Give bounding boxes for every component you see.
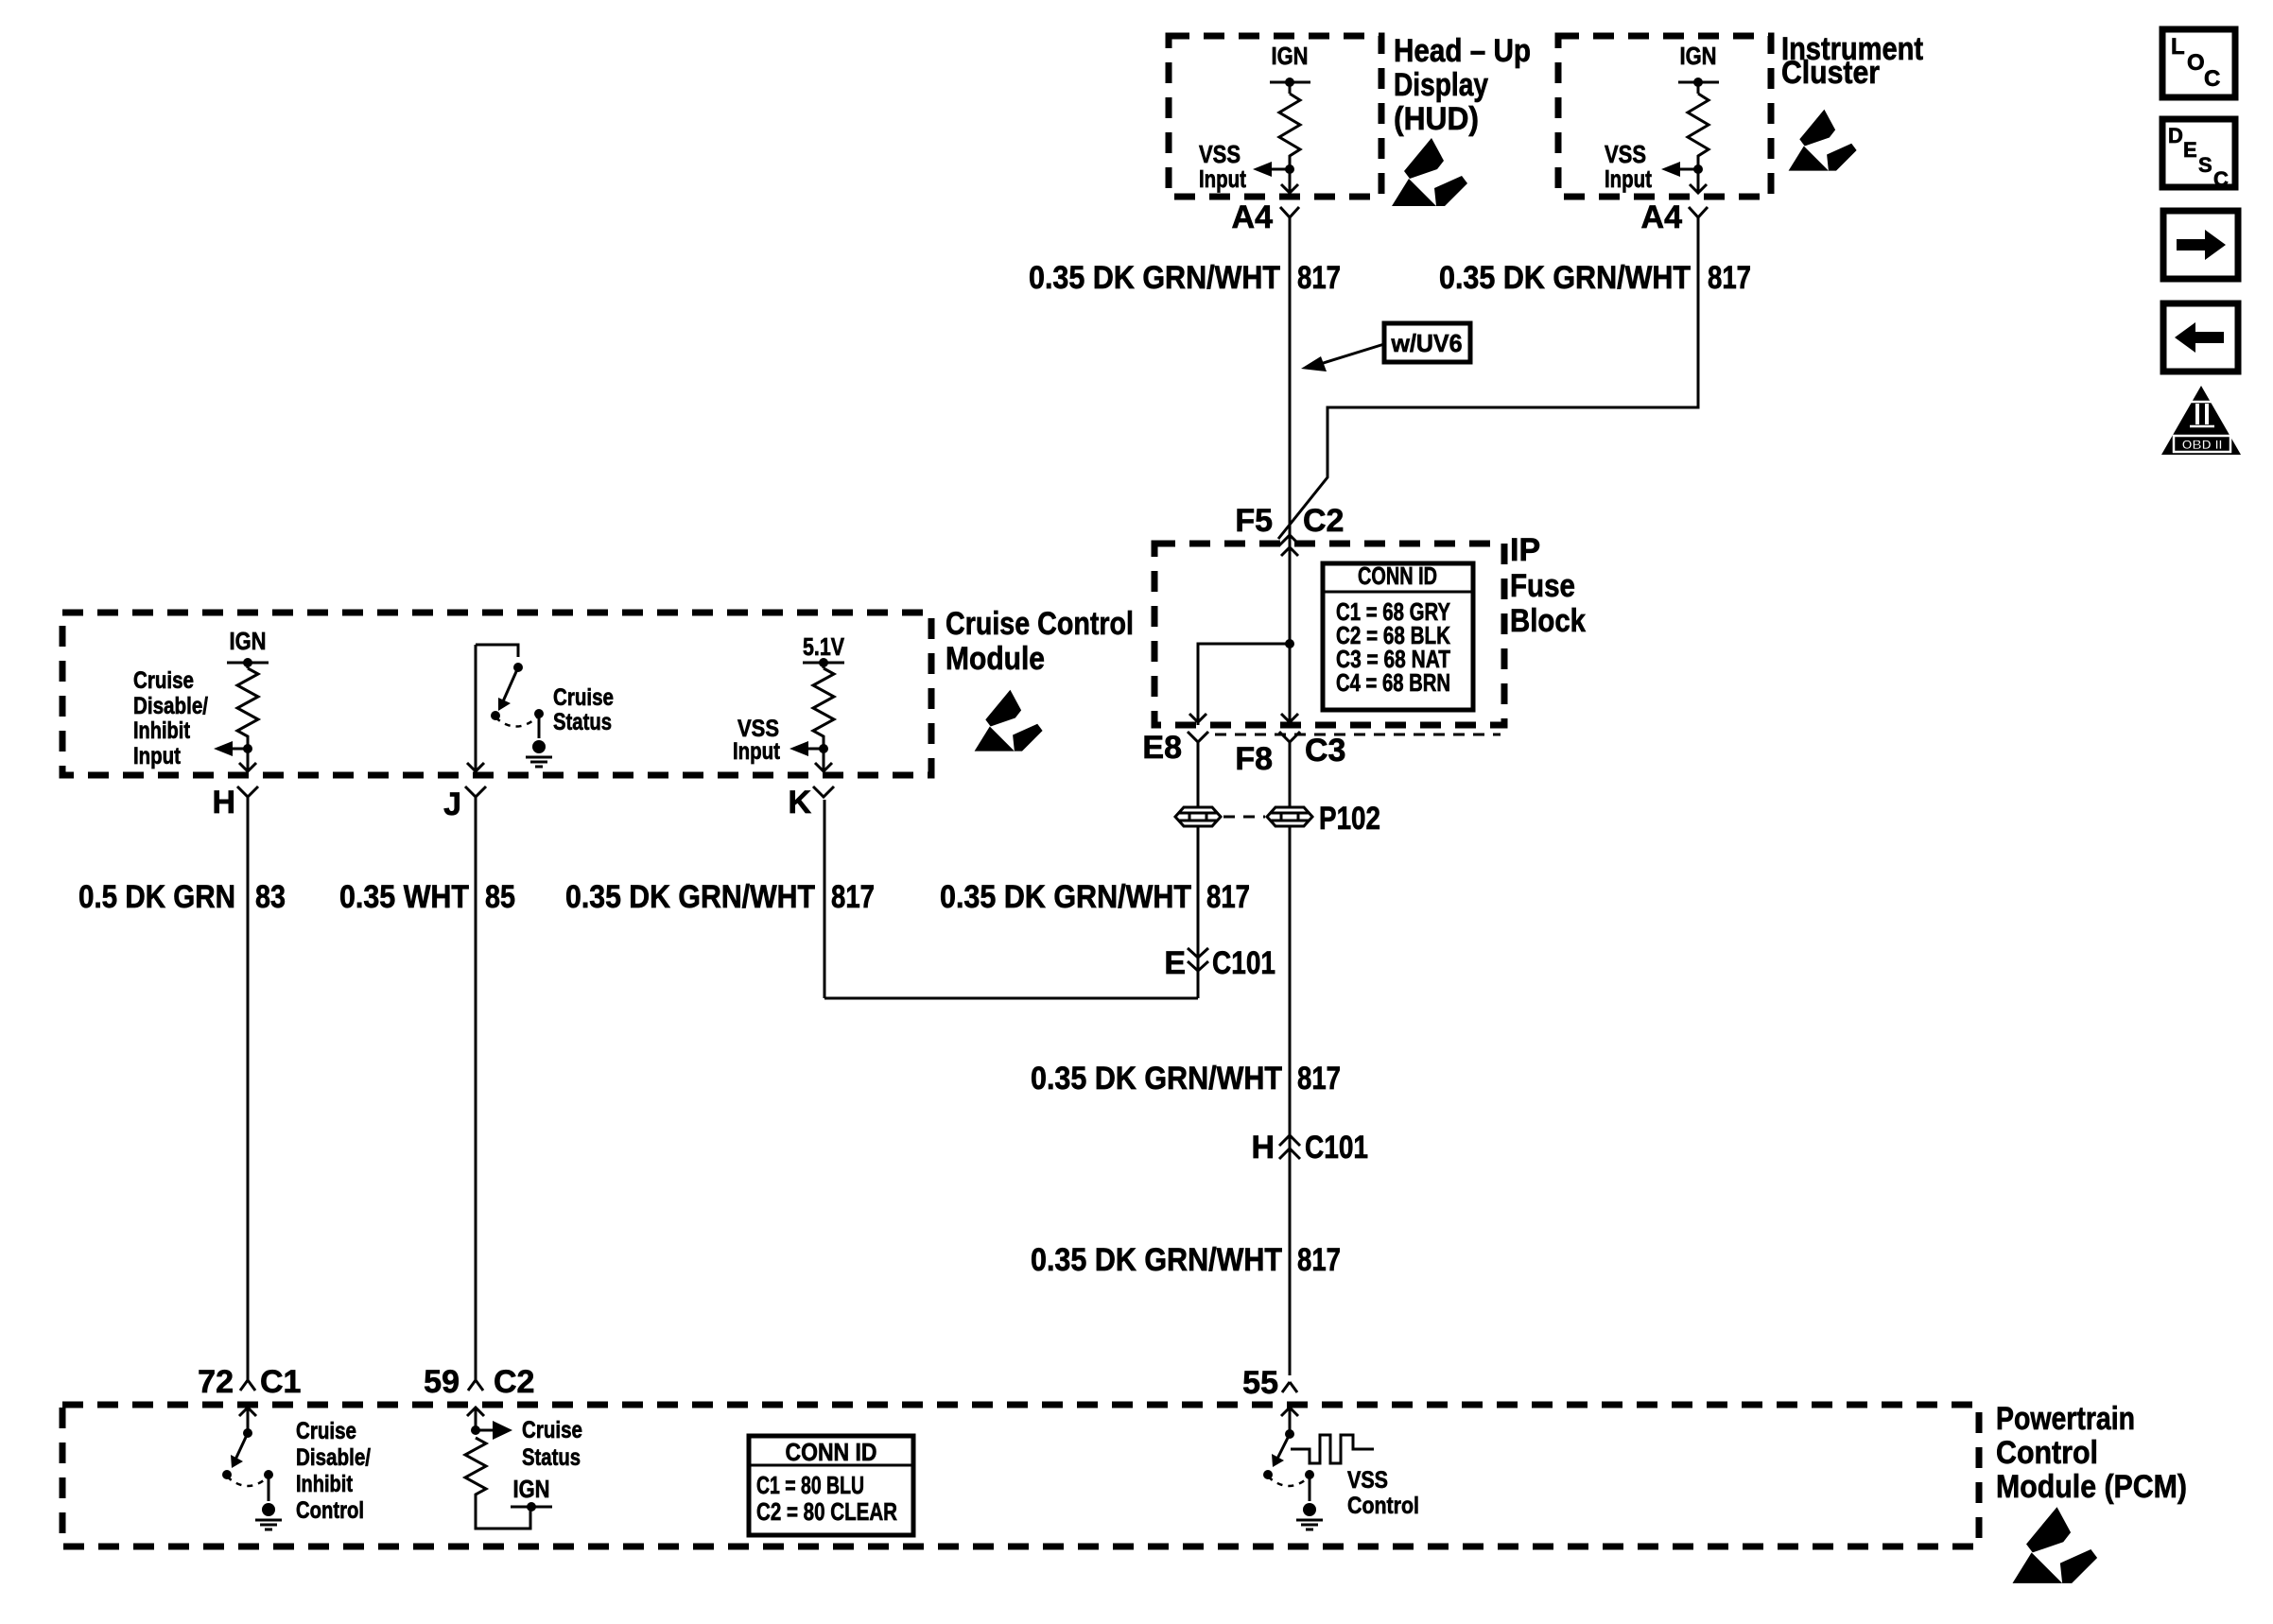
svg-text:0.35 DK GRN/WHT: 0.35 DK GRN/WHT [1029,260,1280,296]
svg-text:CONN ID: CONN ID [1358,561,1437,590]
svg-text:CONN ID: CONN ID [786,1438,877,1466]
svg-text:Fuse: Fuse [1510,568,1575,604]
svg-text:Input: Input [1199,164,1246,193]
svg-text:Input: Input [1605,164,1652,193]
svg-text:817: 817 [1297,260,1341,296]
svg-text:0.35 DK GRN/WHT: 0.35 DK GRN/WHT [940,879,1191,915]
svg-text:817: 817 [1206,879,1250,915]
svg-text:Cruise: Cruise [296,1418,356,1444]
svg-text:Cruise: Cruise [522,1417,582,1443]
svg-text:0.35 DK GRN/WHT: 0.35 DK GRN/WHT [565,879,815,915]
svg-text:A4: A4 [1641,199,1683,235]
svg-text:C101: C101 [1212,945,1275,981]
svg-text:C2 = 80 CLEAR: C2 = 80 CLEAR [756,1497,897,1526]
svg-text:C101: C101 [1305,1130,1368,1166]
svg-text:Inhibit: Inhibit [133,717,191,744]
svg-text:Control: Control [1347,1493,1419,1519]
svg-text:w/UV6: w/UV6 [1391,329,1463,357]
svg-text:Block: Block [1510,603,1586,639]
svg-text:0.35 DK GRN/WHT: 0.35 DK GRN/WHT [1031,1061,1282,1097]
svg-text:85: 85 [485,879,515,915]
svg-text:J: J [443,786,461,822]
svg-text:Cruise: Cruise [553,684,614,711]
svg-text:C3: C3 [1305,733,1345,769]
svg-text:5.1V: 5.1V [803,632,845,661]
svg-text:IP: IP [1510,532,1540,568]
svg-text:Display: Display [1394,67,1488,103]
svg-text:Disable/: Disable/ [296,1444,371,1471]
svg-text:Disable/: Disable/ [133,693,208,719]
svg-text:C: C [2213,167,2229,191]
svg-text:0.5 DK GRN: 0.5 DK GRN [78,879,235,915]
svg-text:D: D [2168,124,2183,147]
svg-text:Cluster: Cluster [1781,55,1880,91]
svg-text:E8: E8 [1142,730,1182,766]
svg-text:817: 817 [1297,1061,1341,1097]
svg-text:C4 = 68 BRN: C4 = 68 BRN [1336,668,1450,697]
svg-text:H: H [212,785,235,821]
svg-text:Module: Module [946,641,1045,677]
svg-text:OBD II: OBD II [2182,437,2223,452]
svg-text:0.35 DK GRN/WHT: 0.35 DK GRN/WHT [1031,1242,1282,1278]
svg-text:72: 72 [198,1364,234,1400]
svg-text:E: E [2183,138,2197,162]
svg-text:IGN: IGN [513,1475,550,1503]
svg-text:A4: A4 [1232,199,1274,235]
svg-text:Head – Up: Head – Up [1394,33,1531,69]
svg-text:IGN: IGN [230,627,267,655]
svg-text:Status: Status [522,1444,581,1471]
svg-text:IGN: IGN [1272,42,1309,70]
svg-text:IGN: IGN [1680,42,1717,70]
svg-text:Input: Input [733,738,781,765]
svg-text:817: 817 [831,879,875,915]
svg-text:VSS: VSS [1347,1467,1388,1494]
svg-text:Cruise: Cruise [133,667,194,694]
svg-text:55: 55 [1242,1365,1278,1401]
svg-text:Control: Control [296,1497,364,1524]
svg-text:F8: F8 [1235,741,1273,777]
svg-text:817: 817 [1297,1242,1341,1278]
svg-text:C1: C1 [260,1364,301,1400]
svg-text:C2: C2 [494,1364,534,1400]
svg-text:0.35 DK GRN/WHT: 0.35 DK GRN/WHT [1439,260,1691,296]
svg-text:E: E [1164,945,1186,981]
svg-text:C: C [2204,66,2220,92]
svg-text:O: O [2187,50,2205,76]
svg-text:Inhibit: Inhibit [296,1471,354,1497]
svg-text:59: 59 [424,1364,460,1400]
svg-text:Cruise Control: Cruise Control [946,606,1134,642]
svg-text:F5: F5 [1235,503,1273,539]
svg-text:K: K [788,785,811,821]
svg-text:817: 817 [1708,260,1751,296]
svg-text:Status: Status [553,709,612,735]
svg-text:C2: C2 [1303,503,1344,539]
svg-text:H: H [1251,1130,1275,1166]
svg-text:P102: P102 [1319,801,1380,837]
svg-text:C1 = 80 BLU: C1 = 80 BLU [756,1471,864,1499]
svg-text:Module (PCM): Module (PCM) [1996,1469,2187,1505]
svg-text:83: 83 [255,879,286,915]
svg-text:L: L [2171,34,2185,60]
svg-text:Control: Control [1996,1435,2098,1471]
svg-text:(HUD): (HUD) [1394,101,1479,137]
svg-text:0.35 WHT: 0.35 WHT [339,879,469,915]
svg-text:S: S [2198,153,2212,177]
svg-text:Input: Input [133,743,182,769]
svg-text:Powertrain: Powertrain [1996,1401,2135,1437]
